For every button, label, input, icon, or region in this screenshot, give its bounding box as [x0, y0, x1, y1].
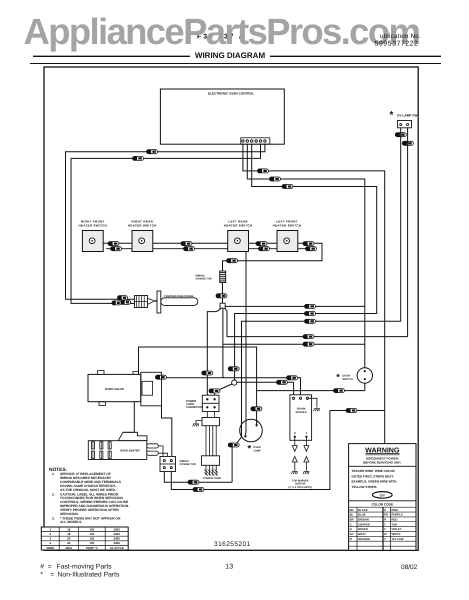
svg-text:3.: 3.: [52, 516, 55, 520]
svg-text:HEATER SWITCH: HEATER SWITCH: [224, 223, 253, 227]
svg-text:TAN: TAN: [392, 522, 398, 526]
svg-text:EXAMPLE: GREEN WIRE WITH: EXAMPLE: GREEN WIRE WITH: [352, 480, 397, 484]
svg-text:BLACK: BLACK: [358, 508, 368, 512]
svg-text:P: P: [384, 508, 386, 512]
svg-text:BR: BR: [350, 517, 354, 521]
svg-text:PINK: PINK: [392, 508, 399, 512]
svg-text:=: =: [48, 563, 52, 570]
svg-text:SWITCH: SWITCH: [342, 378, 352, 381]
svg-text:*: *: [40, 571, 43, 578]
svg-text:POWER CORD: POWER CORD: [203, 477, 221, 480]
svg-text:AS THE ORIGINAL MUST BE USED.: AS THE ORIGINAL MUST BE USED.: [60, 488, 116, 492]
svg-text:BEFORE SERVICING UNIT.: BEFORE SERVICING UNIT.: [363, 461, 401, 465]
svg-text:WIRING DIAGRAM: WIRING DIAGRAM: [195, 51, 266, 60]
svg-text:105: 105: [89, 541, 94, 545]
svg-text:Fast-moving Parts: Fast-moving Parts: [57, 563, 113, 570]
svg-text:WIRE: WIRE: [46, 546, 54, 550]
svg-text:CONNECTOR: CONNECTOR: [196, 278, 212, 281]
svg-text:1.: 1.: [52, 472, 55, 476]
svg-text:OVEN VALVE: OVEN VALVE: [105, 387, 124, 391]
svg-text:=: =: [50, 571, 54, 578]
svg-text:18: 18: [67, 532, 71, 536]
svg-text:HEATER SWITCH: HEATER SWITCH: [128, 223, 157, 227]
svg-text:ublication No.: ublication No.: [380, 33, 421, 40]
svg-text:C: C: [350, 522, 352, 526]
svg-text:#: #: [40, 563, 44, 570]
svg-text:Non-Illustrated Parts: Non-Illustrated Parts: [58, 571, 121, 578]
svg-text:*: *: [248, 444, 252, 455]
svg-text:G/Y: G/Y: [380, 493, 386, 497]
svg-text:18: 18: [67, 527, 71, 531]
svg-text:BROWN: BROWN: [358, 517, 369, 521]
svg-text:W: W: [384, 532, 387, 536]
svg-text:COPPER: COPPER: [358, 522, 370, 526]
svg-text:PURPLE: PURPLE: [392, 513, 403, 517]
svg-text:BK: BK: [350, 508, 354, 512]
svg-text:TRACER WIRE: WIRE COLOR: TRACER WIRE: WIRE COLOR: [352, 469, 396, 473]
svg-text:105: 105: [89, 532, 94, 536]
svg-text:SERVICING.: SERVICING.: [60, 512, 79, 516]
svg-text:2.: 2.: [52, 492, 55, 496]
svg-text:GREEN: GREEN: [358, 527, 368, 531]
svg-text:316255201: 316255201: [214, 541, 251, 548]
svg-text:BL: BL: [350, 513, 354, 517]
svg-text:PR: PR: [384, 513, 388, 517]
svg-text:WHITE: WHITE: [392, 532, 401, 536]
svg-text:Y: Y: [384, 537, 386, 541]
svg-text:ORANGE: ORANGE: [358, 537, 370, 541]
svg-text:BLUE: BLUE: [358, 513, 366, 517]
svg-text:2465: 2465: [113, 537, 120, 541]
svg-text:R: R: [384, 517, 386, 521]
svg-text:MODULE: MODULE: [296, 411, 308, 414]
svg-text:08/02: 08/02: [401, 564, 418, 571]
svg-text:150: 150: [89, 537, 94, 541]
svg-text:2463: 2463: [113, 527, 120, 531]
svg-text:RED: RED: [392, 517, 398, 521]
svg-text:YELLOW STRIPE.: YELLOW STRIPE.: [352, 485, 378, 489]
svg-text:UL STYLE: UL STYLE: [110, 546, 124, 550]
svg-text:TEMPERATURE PROBE: TEMPERATURE PROBE: [164, 295, 194, 298]
svg-text:T: T: [384, 522, 386, 526]
svg-text:WARNING: WARNING: [365, 447, 400, 455]
svg-text:VIOLET: VIOLET: [392, 527, 402, 531]
svg-text:G: G: [350, 527, 352, 531]
svg-text:HEATER SWITCH: HEATER SWITCH: [78, 223, 107, 227]
svg-text:NOTED FIRST, STRIPE NEXT.: NOTED FIRST, STRIPE NEXT.: [352, 474, 394, 478]
svg-text:*: *: [390, 110, 394, 121]
svg-text:20: 20: [67, 541, 71, 545]
svg-text:HEATER SWITCH: HEATER SWITCH: [273, 223, 302, 227]
svg-text:BAKE IGNITER: BAKE IGNITER: [120, 450, 139, 453]
svg-text:YELLOW: YELLOW: [392, 537, 404, 541]
svg-text:13: 13: [225, 563, 233, 570]
svg-text:COLOR CODE: COLOR CODE: [371, 503, 393, 507]
svg-text:2463: 2463: [113, 541, 120, 545]
svg-text:ALL MODELS.: ALL MODELS.: [60, 520, 82, 524]
svg-text:GY: GY: [350, 532, 354, 536]
svg-text:(2, 3, 4 OR 5 UNITS): (2, 3, 4 OR 5 UNITS): [289, 486, 313, 489]
svg-text:V: V: [384, 527, 386, 531]
svg-text:AppliancePartsPros.com: AppliancePartsPros.com: [24, 11, 420, 52]
svg-text:*: *: [336, 372, 340, 382]
svg-text:LAMP: LAMP: [254, 449, 262, 452]
svg-text:CONNECTOR: CONNECTOR: [186, 406, 203, 409]
svg-text:2463: 2463: [113, 532, 120, 536]
svg-text:ELECTRONIC OVEN CONTROL: ELECTRONIC OVEN CONTROL: [208, 92, 254, 96]
svg-text:GRAY: GRAY: [358, 532, 366, 536]
svg-text:CONNECTOR: CONNECTOR: [180, 463, 196, 466]
svg-text:OV LAMP SW: OV LAMP SW: [397, 114, 417, 118]
svg-text:TEMP °C: TEMP °C: [86, 546, 99, 550]
svg-text:20: 20: [67, 537, 71, 541]
svg-text:105: 105: [89, 527, 94, 531]
svg-text:AWG: AWG: [65, 546, 73, 550]
svg-text:5995377222: 5995377222: [375, 41, 419, 48]
